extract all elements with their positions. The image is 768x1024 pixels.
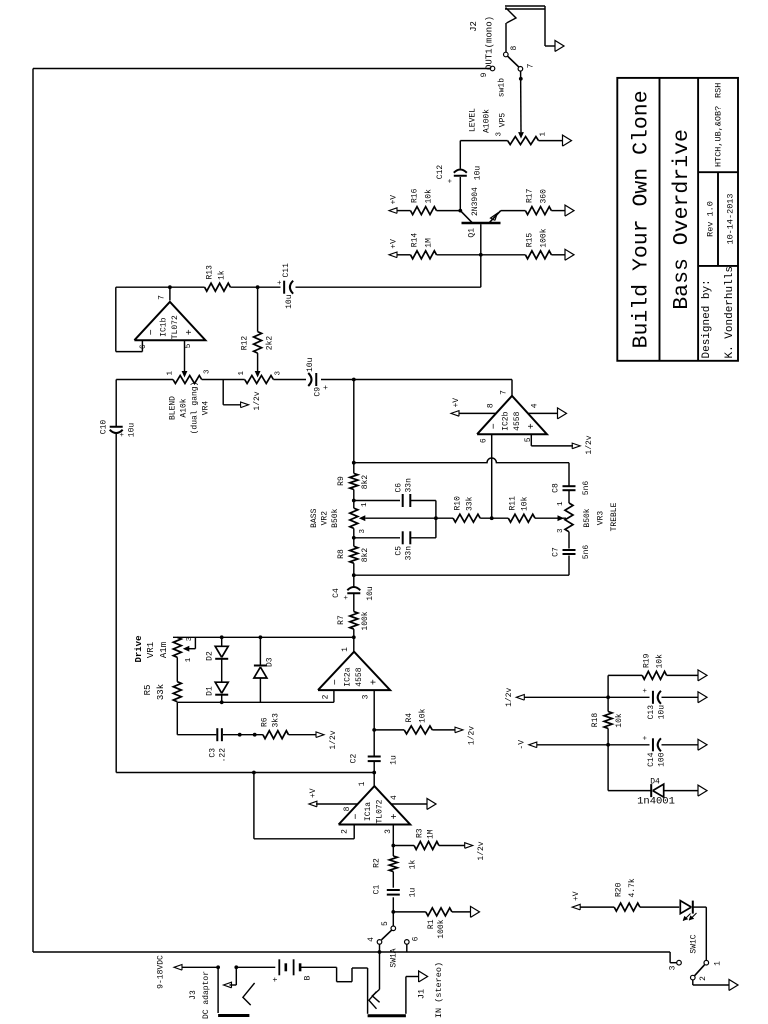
- wire IC2b output to C9 column: [511, 380, 513, 396]
- wire IC2b pin6: [491, 434, 493, 518]
- svg-text:C4: C4: [332, 588, 341, 598]
- wire R5 to VR1: [176, 657, 178, 681]
- svg-text:100: 100: [658, 752, 667, 767]
- svg-text:R1: R1: [427, 919, 436, 929]
- title block frame: [617, 78, 738, 361]
- switch SW1A: [391, 926, 396, 931]
- svg-text:100k: 100k: [361, 611, 370, 630]
- svg-text:R6: R6: [261, 717, 270, 727]
- resistor R9 8k2: [350, 473, 358, 489]
- wire hop rail: [354, 458, 569, 463]
- svg-text:C1: C1: [373, 885, 382, 895]
- svg-text:R16: R16: [411, 188, 420, 203]
- wire R2 to R3 node: [392, 825, 394, 857]
- wire bypass top rail: [32, 69, 34, 953]
- svg-text:Rev 1.0: Rev 1.0: [706, 201, 716, 237]
- capacitor C3 .22: [216, 728, 218, 741]
- svg-text:C7: C7: [552, 547, 561, 557]
- resistor R13 1k: [205, 283, 231, 291]
- op-amp IC1b TL072: [134, 302, 205, 340]
- svg-text:SW1A: SW1A: [390, 948, 399, 967]
- capacitor C6 33n: [354, 500, 400, 502]
- junction IC1b output node: [168, 285, 172, 289]
- resistor R19 10k: [642, 671, 666, 679]
- junction dry node: [372, 771, 376, 775]
- svg-text:IC2a: IC2a: [344, 667, 353, 686]
- svg-text:5: 5: [381, 921, 390, 926]
- svg-text:+: +: [343, 595, 351, 600]
- ground below R1: [471, 906, 480, 917]
- power 9-18VDC arrow: [174, 965, 182, 971]
- wire IC1b column top: [116, 286, 205, 288]
- wire +V to R14: [397, 254, 411, 256]
- svg-text:1: 1: [361, 502, 369, 507]
- svg-text:+: +: [642, 735, 650, 740]
- svg-text:TL072: TL072: [171, 315, 180, 339]
- capacitor C7 5n6: [563, 553, 576, 555]
- svg-text:3: 3: [275, 371, 283, 376]
- svg-text:+V: +V: [390, 239, 399, 249]
- svg-text:R3: R3: [416, 828, 425, 838]
- svg-text:C10: C10: [100, 420, 109, 435]
- net 1/2v below R4: [455, 727, 463, 733]
- potentiometer VP5 LEVEL A100k: [508, 137, 539, 145]
- svg-text:IN (stereo): IN (stereo): [434, 962, 444, 1018]
- svg-text:9-18VDC: 9-18VDC: [157, 955, 166, 989]
- wire R10 to R11: [480, 517, 508, 519]
- svg-text:R7: R7: [337, 615, 346, 625]
- svg-text:B50k: B50k: [331, 508, 340, 527]
- wire BLEND top to C10 rail: [116, 379, 173, 381]
- capacitor C12 10u: [454, 175, 467, 177]
- svg-text:+V: +V: [390, 195, 399, 205]
- svg-text:1u: 1u: [409, 888, 418, 898]
- wire dry rail vertical: [116, 772, 374, 774]
- svg-text:4: 4: [390, 795, 399, 800]
- svg-text:-V: -V: [518, 740, 527, 750]
- svg-text:IC1b: IC1b: [159, 317, 168, 336]
- op-amp IC2a 4558: [318, 652, 390, 690]
- capacitor C13 10u: [652, 691, 654, 704]
- svg-text:3: 3: [204, 369, 212, 374]
- svg-text:2: 2: [699, 976, 708, 981]
- svg-text:D1: D1: [206, 686, 215, 696]
- wire battery column: [236, 966, 275, 968]
- wire C12 to LEVEL: [459, 141, 461, 169]
- LED D5: [692, 901, 694, 914]
- svg-text:−: −: [331, 679, 342, 685]
- junction wiper-connector: [434, 516, 438, 520]
- ground at IC2b pin4: [558, 408, 567, 419]
- capacitor C4 10u: [347, 592, 360, 594]
- resistor R4 10k: [404, 726, 432, 734]
- svg-text:6: 6: [139, 344, 148, 349]
- junction drive feedback node: [352, 635, 356, 639]
- svg-text:BLEND: BLEND: [169, 396, 178, 420]
- svg-text:TL072: TL072: [375, 799, 384, 823]
- capacitor C9 10u: [321, 379, 354, 381]
- wire R13 to R12 node: [230, 286, 280, 288]
- wire IC2a pin3: [373, 689, 375, 691]
- op-amp IC1a TL072: [339, 786, 411, 824]
- wire C8 to hop rail: [568, 463, 570, 487]
- svg-text:1: 1: [238, 371, 246, 376]
- svg-text:HTCH,UB,&OB?: HTCH,UB,&OB?: [714, 106, 724, 167]
- junction 1/2v rail node: [606, 695, 610, 699]
- svg-text:33n: 33n: [405, 478, 414, 493]
- svg-text:360: 360: [540, 189, 549, 204]
- svg-text:8k2: 8k2: [361, 548, 370, 563]
- svg-text:+V: +V: [572, 891, 581, 901]
- diode D4 1n4001: [650, 784, 652, 797]
- resistor R20 4.7k: [614, 903, 640, 911]
- svg-text:OUT1(mono): OUT1(mono): [485, 16, 495, 70]
- svg-text:VR1: VR1: [146, 642, 156, 658]
- svg-text:10u: 10u: [306, 357, 315, 372]
- wire emitter to R17: [501, 210, 526, 212]
- ground below C14: [698, 739, 707, 750]
- junction bypass-pin4: [378, 950, 382, 954]
- svg-text:C14: C14: [647, 752, 656, 767]
- resistor R1 100k: [426, 908, 452, 916]
- svg-text:A1m: A1m: [159, 642, 169, 658]
- wire C7 to TREBLE: [568, 532, 570, 549]
- power +V at R14: [389, 252, 397, 258]
- svg-text:R4: R4: [405, 713, 414, 723]
- svg-text:3: 3: [557, 528, 565, 533]
- resistor R8 8k2: [350, 546, 358, 563]
- svg-text:+: +: [270, 977, 280, 982]
- svg-text:D4: D4: [650, 778, 660, 787]
- svg-text:R17: R17: [526, 188, 535, 203]
- junction R12 node: [256, 285, 260, 289]
- wire IC2b pin8 +V: [459, 412, 497, 414]
- svg-text:+: +: [322, 385, 331, 390]
- svg-text:R10: R10: [454, 496, 463, 511]
- junction C9 node: [352, 378, 356, 382]
- svg-text:1: 1: [358, 781, 367, 786]
- svg-text:1: 1: [185, 657, 193, 662]
- wire R12 row: [257, 353, 259, 371]
- ground below LEVEL: [563, 135, 572, 146]
- svg-text:R11: R11: [509, 496, 518, 511]
- wire R15 to ground: [551, 254, 565, 256]
- wire R1 drop: [393, 911, 426, 913]
- svg-text:+: +: [370, 679, 381, 685]
- net 1/2v below R3: [465, 843, 473, 849]
- svg-text:9: 9: [480, 72, 489, 77]
- svg-text:B50k: B50k: [583, 508, 592, 527]
- svg-text:+: +: [447, 178, 455, 183]
- svg-text:4.7k: 4.7k: [628, 878, 637, 897]
- diode D3: [254, 665, 267, 667]
- net 1/2v below R6: [316, 732, 324, 738]
- svg-text:VR3: VR3: [597, 511, 606, 526]
- svg-text:4558: 4558: [355, 667, 364, 686]
- svg-text:R12: R12: [241, 336, 250, 351]
- svg-text:BASS: BASS: [310, 508, 319, 527]
- svg-text:5n6: 5n6: [582, 481, 591, 496]
- svg-text:A100k: A100k: [483, 109, 492, 133]
- wire C5-C6 connector: [435, 501, 437, 538]
- svg-text:10u: 10u: [366, 586, 375, 601]
- capacitor C5 33n: [354, 537, 400, 539]
- wire C10 to blend: [115, 380, 117, 427]
- junction C6 node: [352, 499, 356, 503]
- svg-text:1/2v: 1/2v: [468, 726, 477, 745]
- svg-text:Build Your Own Clone: Build Your Own Clone: [630, 90, 654, 348]
- wire treble rail left: [354, 574, 569, 576]
- potentiometer VR4 BLEND A10k gang A: [173, 376, 202, 384]
- svg-text:10k: 10k: [419, 708, 428, 723]
- power +V at R16: [389, 208, 397, 214]
- wire C4 to tone stack: [353, 563, 355, 587]
- svg-text:7: 7: [500, 390, 509, 395]
- resistor R12 2k2: [254, 332, 262, 354]
- transistor Q1 2N3904: [462, 222, 501, 225]
- svg-text:10u: 10u: [658, 705, 667, 720]
- wire bypass jog to SW1C pin3: [669, 952, 671, 963]
- junction wiper-sw node: [519, 77, 523, 81]
- svg-text:Bass Overdrive: Bass Overdrive: [670, 129, 694, 310]
- wire bypass right rail to SW1b pin9: [33, 68, 490, 70]
- svg-text:1/2v: 1/2v: [329, 730, 338, 749]
- wire base node to R15: [481, 254, 526, 256]
- wire R17 to ground: [551, 210, 565, 212]
- svg-text:2: 2: [322, 694, 331, 699]
- junction feedback-dry node: [252, 771, 256, 775]
- ground at IC1a pin4: [427, 799, 436, 810]
- resistor R16 10k: [411, 207, 437, 215]
- svg-text:C2: C2: [350, 754, 359, 764]
- svg-text:1n4001: 1n4001: [637, 796, 675, 808]
- wire SW1A pin4 to J1 tip and bypass: [379, 944, 381, 989]
- wire IC2b pin4 ground: [528, 412, 557, 414]
- svg-text:+: +: [185, 329, 196, 335]
- junction IC2b pin6 node: [490, 516, 494, 520]
- svg-text:8k2: 8k2: [361, 475, 370, 490]
- svg-text:10k: 10k: [615, 713, 624, 728]
- wire IC2b pin5 to 1/2v: [530, 434, 532, 446]
- svg-text:2N3904: 2N3904: [471, 187, 480, 216]
- ground below D4: [698, 785, 707, 796]
- capacitor C14 100: [652, 738, 654, 751]
- svg-text:LEVEL: LEVEL: [469, 108, 478, 132]
- wire collector to C12: [459, 177, 461, 211]
- svg-text:10u: 10u: [473, 166, 482, 181]
- wire C14 column: [608, 744, 649, 746]
- svg-text:8: 8: [510, 46, 519, 51]
- connector J3 DC adaptor: [217, 967, 219, 1013]
- net -V arrow: [537, 744, 608, 746]
- junction R3 node: [391, 844, 395, 848]
- wire TREBLE to C8: [568, 490, 570, 503]
- wire C1 to R2: [392, 872, 394, 888]
- resistor R6 3k3: [263, 731, 289, 739]
- wire R9 to C9 column: [353, 380, 355, 474]
- svg-text:K. Vonderhulls: K. Vonderhulls: [724, 266, 736, 358]
- wire IC1a pin4 ground: [391, 803, 427, 805]
- diode D1: [215, 694, 228, 696]
- svg-text:C3: C3: [209, 748, 218, 758]
- wire LED to SW1C pin1: [693, 906, 707, 908]
- svg-text:10k: 10k: [656, 654, 665, 669]
- svg-text:TREBLE: TREBLE: [610, 502, 619, 531]
- svg-text:100k: 100k: [540, 228, 549, 247]
- svg-text:sw1b: sw1b: [498, 78, 507, 97]
- svg-text:R5: R5: [143, 685, 153, 696]
- wire C3 to R6: [223, 734, 263, 736]
- wire IC1b output: [169, 287, 171, 300]
- svg-text:100k: 100k: [437, 919, 446, 938]
- wire diode D1-D2 row: [221, 695, 223, 703]
- power rail: [607, 728, 609, 790]
- svg-text:D3: D3: [266, 657, 275, 667]
- resistor R17 360: [525, 207, 551, 215]
- ground below R17: [565, 205, 574, 216]
- svg-text:33k: 33k: [156, 684, 166, 700]
- net 1/2v source: [516, 695, 524, 701]
- svg-text:SW1C: SW1C: [690, 934, 699, 953]
- svg-text:VR2: VR2: [321, 511, 330, 526]
- wire battery minus jog: [300, 966, 337, 968]
- svg-text:C11: C11: [282, 263, 291, 278]
- svg-text:R8: R8: [337, 549, 346, 559]
- svg-text:RSH: RSH: [714, 83, 724, 98]
- resistor R7 100k: [350, 612, 358, 630]
- wire LEVEL wiper to SW1b: [520, 71, 522, 132]
- svg-text:Q1: Q1: [468, 228, 477, 238]
- svg-text:.22: .22: [219, 748, 228, 763]
- svg-text:1M: 1M: [427, 829, 436, 839]
- wire R5 to C3: [176, 702, 178, 734]
- svg-text:R15: R15: [526, 233, 535, 248]
- wire dry rail top: [115, 433, 117, 773]
- resistor R15 100k: [525, 251, 551, 259]
- svg-text:1/2v: 1/2v: [585, 435, 594, 454]
- wire R14 to base node: [437, 254, 481, 256]
- svg-text:R20: R20: [615, 882, 624, 897]
- potentiometer VR1 Drive A1m: [176, 636, 178, 638]
- svg-text:J2: J2: [469, 21, 479, 32]
- svg-text:J3: J3: [189, 990, 198, 1000]
- svg-text:J1: J1: [417, 989, 427, 999]
- svg-text:3: 3: [496, 132, 504, 137]
- diode D2: [215, 658, 228, 660]
- svg-text:7: 7: [158, 295, 167, 300]
- svg-text:+: +: [277, 280, 285, 285]
- wire R11 to TREBLE wiper: [535, 517, 566, 519]
- resistor R10 33k: [453, 514, 480, 522]
- svg-text:3: 3: [669, 965, 678, 970]
- svg-text:7: 7: [527, 63, 536, 68]
- svg-text:+: +: [642, 688, 650, 693]
- svg-text:VR4: VR4: [202, 401, 211, 416]
- svg-text:1: 1: [714, 961, 723, 966]
- svg-text:+: +: [527, 423, 538, 429]
- potentiometer VR4 BLEND A10k gang B: [245, 376, 274, 384]
- switch SW1b: [490, 66, 495, 71]
- svg-text:C6: C6: [395, 483, 404, 493]
- svg-text:10u: 10u: [285, 294, 294, 309]
- battery B: [278, 959, 280, 975]
- svg-text:4558: 4558: [513, 411, 522, 430]
- svg-text:R9: R9: [337, 476, 346, 486]
- svg-text:1u: 1u: [390, 755, 399, 765]
- junction C5 node: [352, 536, 356, 540]
- resistor R2 1k: [389, 856, 397, 872]
- connector J2 OUT1(mono): [505, 8, 545, 10]
- svg-text:IC2b: IC2b: [502, 411, 511, 430]
- svg-text:10-14-2013: 10-14-2013: [726, 193, 736, 244]
- svg-text:R2: R2: [373, 858, 382, 868]
- wire SW1A pin6 to bypass: [406, 944, 408, 952]
- svg-text:D2: D2: [206, 651, 215, 661]
- svg-text:4: 4: [367, 937, 376, 942]
- resistor R3 1M: [414, 842, 439, 850]
- svg-text:+V: +V: [309, 788, 318, 798]
- ground below C13: [698, 692, 707, 703]
- wire BASS wiper column: [365, 517, 453, 519]
- svg-text:5: 5: [184, 343, 193, 348]
- wire IC1b feedback: [141, 340, 143, 351]
- svg-text:3: 3: [362, 694, 371, 699]
- potentiometer VR3 TREBLE B50k: [565, 503, 573, 532]
- wire R8 to BASS: [353, 528, 355, 546]
- potentiometer VR2 BASS B50k: [350, 508, 358, 528]
- wire C2 to IC2a pin3: [373, 690, 375, 756]
- junction R1 node: [391, 910, 395, 914]
- svg-text:6: 6: [412, 936, 421, 941]
- svg-text:1: 1: [167, 371, 175, 376]
- wire BASS to R9: [353, 490, 355, 509]
- resistor R14 1M: [411, 251, 437, 259]
- op-amp IC2b 4558: [477, 396, 547, 434]
- ground below R15: [565, 249, 574, 260]
- svg-text:1/2v: 1/2v: [253, 391, 262, 410]
- svg-text:2: 2: [341, 829, 350, 834]
- svg-text:2k2: 2k2: [266, 336, 275, 351]
- wire diode D3 row: [259, 678, 261, 702]
- svg-text:10k: 10k: [425, 189, 434, 204]
- power +V at IC2b: [451, 411, 459, 417]
- junction collector node: [458, 209, 462, 213]
- svg-text:1: 1: [341, 647, 350, 652]
- wire R19 column: [608, 674, 642, 676]
- junction tone bottom-rail node: [352, 573, 356, 577]
- ground at J1: [419, 971, 428, 982]
- svg-text:1k: 1k: [409, 860, 418, 870]
- svg-text:6: 6: [479, 438, 488, 443]
- wire IC1a pin8 +V: [316, 803, 358, 805]
- svg-text:1/2v: 1/2v: [505, 687, 514, 706]
- svg-text:R18: R18: [591, 713, 600, 728]
- wire LEVEL to ground: [539, 140, 563, 142]
- svg-text:−: −: [352, 813, 363, 819]
- capacitor C2 1u: [368, 760, 381, 762]
- resistor R5 33k: [173, 682, 181, 702]
- wire Q1 base row: [480, 224, 482, 287]
- svg-text:−: −: [147, 329, 158, 335]
- power +V at IC1a: [309, 801, 317, 807]
- svg-text:1/2v: 1/2v: [477, 841, 486, 860]
- wire R3 drop: [393, 845, 414, 847]
- svg-text:+: +: [119, 432, 127, 437]
- svg-text:1M: 1M: [425, 238, 434, 248]
- svg-text:8: 8: [343, 806, 352, 811]
- svg-text:IC1a: IC1a: [364, 802, 373, 821]
- svg-text:1: 1: [540, 132, 548, 137]
